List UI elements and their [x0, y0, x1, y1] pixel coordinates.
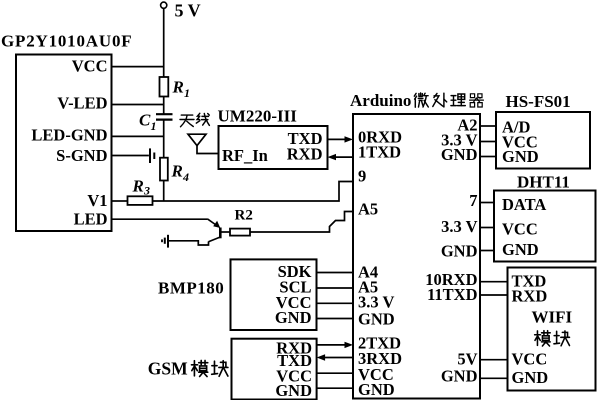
svg-text:RXD: RXD — [512, 286, 548, 305]
wire LED-GND to rail — [112, 135, 164, 137]
label Arduino微处理器 — [350, 91, 483, 110]
svg-text:C: C — [139, 111, 151, 130]
label R1 — [172, 77, 191, 100]
wire R4 to V1 line — [163, 181, 165, 202]
wire GND to GND (BMP180) — [317, 318, 354, 320]
svg-text:GND: GND — [502, 240, 539, 259]
wire GND to GND (HS-FS01) — [480, 156, 496, 158]
svg-text:GND: GND — [275, 381, 312, 400]
label R3 — [132, 177, 151, 198]
svg-text:VCC: VCC — [72, 56, 108, 75]
svg-text:GND: GND — [358, 380, 395, 399]
svg-text:V1: V1 — [87, 191, 107, 210]
svg-text:R: R — [172, 77, 184, 96]
wire GND to GND (WIFI) — [480, 377, 508, 379]
svg-text:RXD: RXD — [287, 145, 323, 164]
svg-text:GP2Y1010AU0F: GP2Y1010AU0F — [1, 32, 132, 51]
svg-text:9: 9 — [358, 166, 366, 185]
svg-text:LED: LED — [74, 210, 108, 229]
svg-text:WIFI: WIFI — [532, 308, 573, 327]
resistor R2 — [230, 229, 250, 236]
wire Arduino 1TXD to UM220 RXD with arrow — [328, 154, 354, 160]
svg-text:7: 7 — [469, 191, 477, 210]
svg-text:GND: GND — [441, 242, 478, 261]
wire GSM GND to Arduino GND — [317, 387, 353, 389]
svg-text:GND: GND — [512, 368, 549, 387]
wire SCL to A5 — [317, 287, 354, 289]
wire 5V vertical to R1 — [163, 8, 165, 77]
wire V-LED to rail — [112, 104, 164, 106]
wire GSM RXD to Arduino 2TXD with arrow — [317, 342, 353, 348]
svg-text:GSM: GSM — [148, 359, 188, 379]
wire A2 to A/D — [480, 125, 496, 127]
label R4 — [171, 162, 190, 185]
node 5V terminal — [161, 2, 167, 8]
svg-text:R: R — [171, 162, 183, 181]
svg-text:4: 4 — [182, 170, 189, 184]
svg-text:5 V: 5 V — [175, 0, 201, 20]
wire UM220 TXD to Arduino 0RXD with arrow — [328, 136, 354, 142]
sensor box BMP180 — [231, 259, 317, 330]
svg-text:GND: GND — [358, 309, 395, 328]
svg-text:DATA: DATA — [502, 195, 546, 214]
MCU box Arduino — [353, 114, 480, 399]
wire R1 to C1 — [163, 97, 165, 115]
wire S-GND to ground — [112, 155, 149, 157]
wire GSM VCC to Arduino VCC — [317, 372, 353, 374]
svg-text:Arduino: Arduino — [350, 91, 411, 110]
svg-text:3.3 V: 3.3 V — [441, 217, 477, 236]
wire Arduino 3RXD to GSM TXD with arrow — [317, 354, 353, 360]
ground at transistor — [162, 235, 168, 248]
sensor box DHT11 — [494, 191, 596, 262]
module box GSM — [232, 339, 317, 400]
svg-text:GND: GND — [275, 308, 312, 327]
svg-text:11TXD: 11TXD — [427, 285, 478, 304]
svg-text:VCC: VCC — [502, 220, 538, 239]
wire 3.3V to VCC (DHT11) — [480, 227, 494, 229]
wire 3.3V to VCC (HS-FS01) — [480, 141, 496, 143]
wire 5V to VCC (WIFI) — [480, 359, 508, 361]
svg-text:BMP180: BMP180 — [158, 279, 224, 298]
wire V1/R3 to Arduino pin 9 — [153, 182, 354, 202]
wire VCC to 5V rail — [112, 66, 164, 68]
svg-text:HS-FS01: HS-FS01 — [506, 92, 571, 111]
svg-text:VCC: VCC — [512, 349, 548, 368]
svg-text:GND: GND — [441, 366, 478, 385]
wire GND to GND (DHT11) — [480, 250, 494, 252]
resistor R4 — [160, 158, 168, 181]
capacitor C1 — [156, 114, 173, 119]
wire V1 to R3 — [112, 200, 128, 202]
antenna — [188, 134, 219, 153]
label GSM模块 — [148, 359, 228, 379]
svg-text:R2: R2 — [235, 208, 253, 224]
svg-text:A5: A5 — [358, 200, 378, 219]
svg-text:LED-GND: LED-GND — [31, 126, 107, 145]
svg-text:3: 3 — [143, 184, 150, 198]
wire R2 to Arduino A5 — [250, 212, 353, 233]
label C1 — [139, 111, 157, 133]
label 天线 — [180, 113, 209, 126]
sensor box HS-FS01 — [496, 112, 590, 169]
sensor box GP2Y1010AU0F — [16, 55, 112, 232]
wire C1 to R4 — [163, 120, 165, 158]
svg-text:S-GND: S-GND — [56, 146, 107, 165]
svg-text:DHT11: DHT11 — [517, 173, 570, 192]
svg-text:UM220-III: UM220-III — [218, 106, 298, 125]
resistor R1 — [160, 77, 169, 97]
svg-text:1TXD: 1TXD — [358, 142, 401, 161]
module box WIFI — [508, 268, 596, 391]
GPS module UM220-III — [219, 126, 328, 169]
wire VCC to 3.3V (BMP180) — [317, 302, 354, 304]
wire SDK to A4 — [317, 272, 354, 274]
wire LED to transistor — [112, 218, 208, 220]
svg-text:1: 1 — [184, 86, 190, 100]
wire 11TXD to RXD — [480, 294, 508, 296]
svg-text:R: R — [132, 177, 144, 196]
resistor R3 — [128, 196, 153, 205]
ground at S-GND — [150, 148, 154, 163]
transistor Q1 — [169, 219, 230, 245]
wire 7 to DATA — [480, 202, 494, 204]
svg-text:V-LED: V-LED — [57, 94, 107, 113]
svg-text:1: 1 — [151, 119, 157, 133]
svg-text:RF_In: RF_In — [222, 146, 268, 165]
svg-text:GND: GND — [441, 145, 478, 164]
label 模块 (WIFI) — [535, 331, 570, 346]
svg-text:GND: GND — [502, 147, 539, 166]
wire 10RXD to TXD — [480, 281, 508, 283]
